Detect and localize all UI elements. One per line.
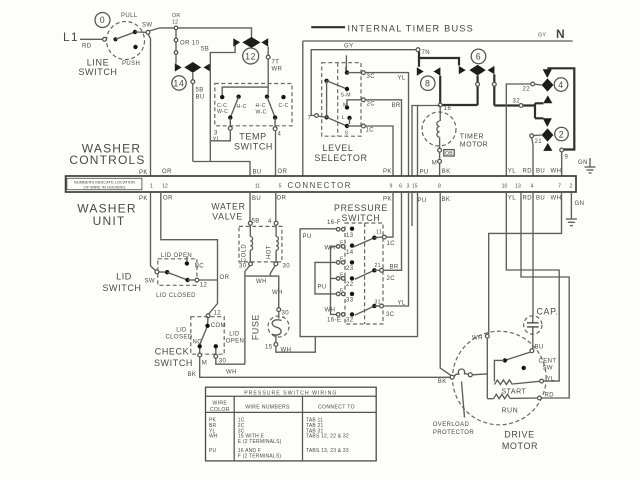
svg-text:E: E bbox=[340, 241, 344, 247]
svg-text:10: 10 bbox=[502, 184, 508, 190]
svg-text:H-C: H-C bbox=[256, 103, 266, 109]
wire plug6 right to 32 line bbox=[492, 74, 496, 105]
svg-text:4: 4 bbox=[278, 132, 282, 138]
svg-text:12: 12 bbox=[162, 184, 168, 190]
svg-text:M: M bbox=[202, 361, 207, 367]
svg-text:RD: RD bbox=[523, 196, 533, 202]
svg-text:5B: 5B bbox=[196, 88, 204, 94]
svg-text:PU: PU bbox=[420, 170, 429, 176]
svg-text:HOT: HOT bbox=[267, 245, 273, 259]
svg-text:COLD: COLD bbox=[242, 244, 248, 263]
wire L1 lead bbox=[80, 38, 103, 40]
wire BK below bar to overload bbox=[440, 192, 452, 376]
svg-text:F: F bbox=[340, 257, 343, 263]
overload protector bbox=[433, 369, 488, 436]
pressure switch terminals row 23 bbox=[336, 257, 354, 273]
svg-text:BU: BU bbox=[535, 345, 544, 351]
svg-text:12: 12 bbox=[245, 52, 256, 62]
svg-text:DRIVE: DRIVE bbox=[504, 430, 535, 440]
pressure switch terminals row 33 bbox=[336, 288, 354, 304]
svg-text:WIRE: WIRE bbox=[212, 401, 227, 407]
wire BU below bar to water valve bbox=[249, 192, 251, 221]
wire 11 stub below bar bbox=[411, 192, 413, 226]
svg-text:14: 14 bbox=[173, 78, 184, 88]
wire BU riser to 21 bbox=[532, 138, 533, 176]
fuse bbox=[251, 308, 292, 354]
svg-text:S: S bbox=[345, 131, 349, 137]
svg-text:N: N bbox=[556, 27, 565, 41]
svg-text:LID: LID bbox=[229, 332, 240, 338]
svg-text:FUSE: FUSE bbox=[251, 314, 261, 340]
svg-text:12: 12 bbox=[172, 20, 178, 26]
node YL motor bbox=[540, 377, 555, 384]
svg-text:CONNECTOR: CONNECTOR bbox=[288, 181, 353, 190]
svg-text:21: 21 bbox=[375, 263, 381, 269]
wire RD below bar to motor bbox=[521, 192, 569, 398]
wire check 30 to water valve (WH) bbox=[216, 358, 245, 375]
capacitor CAP bbox=[524, 307, 559, 353]
svg-text:BK: BK bbox=[188, 372, 197, 378]
svg-text:16-E: 16-E bbox=[327, 318, 341, 324]
svg-text:BU: BU bbox=[253, 170, 262, 176]
svg-text:14: 14 bbox=[346, 250, 354, 256]
svg-text:YL: YL bbox=[398, 301, 406, 307]
pressure switch terminals row 32 bbox=[325, 308, 355, 324]
start winding bbox=[494, 360, 539, 395]
svg-text:F (2 TERMINALS): F (2 TERMINALS) bbox=[238, 453, 282, 459]
svg-text:SWITCH: SWITCH bbox=[102, 283, 141, 293]
pressure switch terminals row 22 bbox=[336, 273, 354, 289]
svg-text:SW: SW bbox=[145, 279, 155, 285]
connector plug 14 bbox=[172, 62, 211, 90]
svg-text:12: 12 bbox=[200, 283, 208, 289]
wire 15 WH staple bbox=[412, 106, 418, 177]
svg-text:L: L bbox=[345, 67, 348, 73]
svg-text:SW: SW bbox=[142, 23, 152, 29]
svg-text:CLOSED: CLOSED bbox=[165, 335, 192, 341]
svg-text:31: 31 bbox=[375, 300, 381, 306]
svg-text:2: 2 bbox=[570, 184, 573, 190]
labels above connector left bbox=[139, 169, 288, 176]
svg-text:RD: RD bbox=[545, 393, 555, 399]
wire OR below bar to check switch bbox=[161, 192, 218, 314]
svg-text:RD: RD bbox=[523, 169, 533, 175]
svg-text:GN: GN bbox=[578, 160, 588, 166]
svg-text:22: 22 bbox=[523, 87, 531, 93]
buss bracket at 535 bbox=[535, 103, 543, 118]
svg-text:7T: 7T bbox=[272, 60, 280, 66]
wire 1C riser to bar bbox=[386, 192, 393, 237]
wire temp 3 to BU rail bbox=[210, 130, 230, 141]
svg-text:8: 8 bbox=[425, 79, 431, 89]
svg-text:VALVE: VALVE bbox=[212, 212, 243, 222]
svg-text:PU: PU bbox=[303, 234, 312, 240]
svg-text:WH: WH bbox=[256, 279, 267, 285]
labels below connector left bbox=[139, 196, 287, 203]
internal timer buss legend bbox=[311, 24, 474, 34]
svg-text:GN: GN bbox=[575, 201, 585, 207]
svg-text:PK: PK bbox=[139, 196, 148, 202]
svg-text:M: M bbox=[432, 161, 437, 167]
svg-text:11: 11 bbox=[255, 184, 260, 190]
svg-text:1: 1 bbox=[150, 184, 153, 190]
svg-text:TIMER: TIMER bbox=[460, 133, 484, 140]
node 7 (level selector) bbox=[308, 114, 327, 122]
svg-text:YL: YL bbox=[213, 137, 221, 143]
svg-text:15: 15 bbox=[265, 345, 273, 351]
svg-text:9: 9 bbox=[390, 184, 393, 190]
temp switch bbox=[213, 84, 293, 152]
svg-text:BR: BR bbox=[392, 103, 401, 109]
node 2C bbox=[362, 98, 376, 108]
labels above connector right bbox=[383, 169, 561, 176]
svg-text:OB: OB bbox=[445, 151, 453, 157]
svg-text:F: F bbox=[340, 288, 343, 294]
wire BU below bar to capacitor bbox=[532, 192, 534, 316]
connector plug 12 bbox=[233, 37, 268, 64]
svg-text:WH: WH bbox=[472, 336, 483, 342]
svg-text:2C: 2C bbox=[387, 276, 396, 282]
svg-text:PU: PU bbox=[418, 198, 427, 204]
svg-text:LID CLOSED: LID CLOSED bbox=[156, 293, 196, 299]
svg-text:YL: YL bbox=[508, 169, 516, 175]
svg-text:CONNECT TO: CONNECT TO bbox=[318, 405, 355, 411]
svg-text:23: 23 bbox=[346, 266, 354, 272]
wire 32 bbox=[494, 99, 535, 108]
level selector bbox=[314, 55, 367, 163]
svg-text:RUN: RUN bbox=[502, 408, 519, 415]
svg-text:GY: GY bbox=[538, 33, 546, 39]
pressure switch PU rail (left/bottom) bbox=[300, 192, 417, 337]
pressure contact 2C bbox=[355, 263, 395, 282]
svg-text:YL: YL bbox=[398, 76, 406, 82]
svg-text:WH: WH bbox=[551, 169, 562, 175]
svg-text:PULL: PULL bbox=[121, 13, 138, 19]
svg-text:BK: BK bbox=[442, 197, 451, 203]
wire 2C riser to bar (BR) bbox=[383, 192, 401, 271]
line switch bbox=[78, 13, 152, 78]
svg-text:OVERLOAD: OVERLOAD bbox=[433, 422, 470, 428]
svg-text:3C: 3C bbox=[367, 74, 376, 80]
svg-text:L1: L1 bbox=[63, 30, 79, 44]
svg-text:5: 5 bbox=[279, 184, 282, 190]
wire 7T WR drop to temp switch bbox=[266, 47, 282, 88]
svg-text:1C: 1C bbox=[366, 128, 375, 134]
svg-text:OR: OR bbox=[163, 196, 173, 202]
svg-text:W-C: W-C bbox=[256, 110, 267, 116]
wire plug14 right to BU rail bbox=[209, 141, 211, 162]
pressure switch terminals row 14 bbox=[325, 241, 355, 257]
wire plug6 diamond to node 16 bbox=[440, 76, 479, 106]
svg-text:CONTROLS: CONTROLS bbox=[69, 153, 145, 167]
wire water valve 30 node bbox=[245, 266, 283, 365]
wire WH jumper (E rows) bbox=[331, 246, 337, 314]
wire PU jumper (F rows) bbox=[315, 262, 337, 294]
svg-text:YL: YL bbox=[547, 377, 555, 383]
svg-text:OR 10: OR 10 bbox=[180, 41, 200, 47]
svg-text:3: 3 bbox=[214, 131, 218, 137]
buss right bracket bbox=[547, 68, 574, 149]
svg-text:SELECTOR: SELECTOR bbox=[314, 153, 367, 163]
svg-text:13: 13 bbox=[515, 184, 521, 190]
svg-text:TEMP: TEMP bbox=[239, 132, 266, 142]
svg-text:30: 30 bbox=[282, 311, 290, 317]
svg-text:16-F: 16-F bbox=[327, 220, 341, 226]
wire WH below bar to motor bbox=[489, 192, 562, 334]
svg-text:6: 6 bbox=[399, 184, 402, 190]
wire 3C riser to bar (YL) bbox=[383, 192, 408, 307]
node OR 12 bbox=[172, 13, 180, 30]
svg-text:30: 30 bbox=[239, 264, 247, 270]
pressure contact 3C bbox=[355, 300, 395, 319]
svg-text:RD: RD bbox=[82, 44, 92, 50]
washer controls label bbox=[69, 142, 145, 168]
svg-text:BU: BU bbox=[536, 169, 545, 175]
svg-text:BK: BK bbox=[442, 169, 451, 175]
svg-text:MOTOR: MOTOR bbox=[502, 441, 538, 451]
centrifugal switch bbox=[503, 352, 557, 371]
wire N (timer box top) bbox=[303, 40, 573, 42]
connector 4 (triangles and diamond) bbox=[542, 69, 568, 103]
svg-text:BU: BU bbox=[252, 196, 261, 202]
wire OR below bar to water valve bbox=[275, 192, 277, 221]
svg-text:2C: 2C bbox=[367, 102, 376, 108]
svg-text:OR: OR bbox=[278, 169, 288, 175]
svg-text:WH: WH bbox=[551, 196, 562, 202]
svg-text:INTERNAL TIMER BUSS: INTERNAL TIMER BUSS bbox=[348, 24, 474, 34]
wire YL riser to 22 bbox=[506, 84, 531, 176]
svg-text:OR: OR bbox=[162, 169, 172, 175]
svg-text:22: 22 bbox=[346, 282, 354, 288]
wire BR riser (2C) bbox=[365, 100, 401, 176]
svg-text:6: 6 bbox=[476, 52, 482, 62]
connector bar bbox=[66, 176, 576, 192]
svg-text:8: 8 bbox=[438, 184, 441, 190]
svg-text:32: 32 bbox=[346, 318, 354, 324]
timer box left edge bbox=[302, 41, 304, 176]
check switch bbox=[154, 311, 244, 369]
svg-text:UNIT: UNIT bbox=[93, 214, 126, 228]
svg-text:WH: WH bbox=[226, 370, 237, 376]
svg-text:3: 3 bbox=[407, 184, 410, 190]
wire YL riser (3C) bbox=[365, 73, 408, 176]
svg-text:7: 7 bbox=[558, 184, 561, 190]
svg-text:START: START bbox=[502, 389, 527, 396]
svg-text:2: 2 bbox=[559, 129, 565, 139]
node 1C bbox=[362, 124, 375, 133]
svg-text:0: 0 bbox=[100, 15, 106, 25]
svg-text:OF WIRE IN HOUSING: OF WIRE IN HOUSING bbox=[84, 185, 126, 190]
svg-text:OR: OR bbox=[220, 275, 230, 281]
pressure switch bbox=[334, 203, 388, 324]
node L1 bbox=[63, 30, 92, 50]
node 21 bbox=[530, 134, 542, 145]
svg-text:CENT: CENT bbox=[539, 359, 557, 365]
svg-text:NC: NC bbox=[195, 264, 205, 270]
wire 5B BU drop bbox=[191, 73, 205, 162]
svg-text:30: 30 bbox=[283, 264, 291, 270]
svg-text:32: 32 bbox=[513, 99, 521, 105]
svg-text:PRESSURE SWITCH WIRING: PRESSURE SWITCH WIRING bbox=[244, 390, 337, 396]
node 22 bbox=[523, 82, 542, 92]
drive motor bbox=[453, 331, 547, 451]
svg-text:1C: 1C bbox=[387, 241, 396, 247]
svg-text:4: 4 bbox=[558, 80, 564, 90]
water valve bbox=[211, 202, 290, 270]
svg-text:COLOR: COLOR bbox=[210, 407, 230, 413]
svg-text:PROTECTOR: PROTECTOR bbox=[433, 430, 474, 436]
wire 5B (plug14 to plug12) bbox=[201, 43, 235, 68]
svg-text:COM: COM bbox=[211, 323, 226, 329]
svg-text:PK: PK bbox=[139, 170, 148, 176]
svg-text:WH: WH bbox=[209, 434, 218, 440]
timer motor bbox=[422, 107, 488, 176]
lid switch bbox=[102, 253, 207, 299]
node 7N bbox=[416, 48, 430, 56]
svg-text:LEVEL: LEVEL bbox=[322, 143, 353, 153]
svg-text:L: L bbox=[342, 115, 345, 121]
svg-text:OPEN: OPEN bbox=[226, 339, 245, 345]
svg-text:S-M: S-M bbox=[341, 93, 351, 99]
wire OR drop bbox=[174, 30, 199, 64]
connector plug 8 bbox=[417, 67, 441, 90]
svg-text:SWITCH: SWITCH bbox=[154, 358, 193, 368]
buss 7N rail bbox=[419, 52, 459, 66]
wire BK check M to overload bbox=[188, 357, 451, 378]
svg-text:WIRE NUMBERS: WIRE NUMBERS bbox=[245, 405, 290, 411]
svg-text:PU: PU bbox=[209, 448, 217, 454]
ground GN top right bbox=[578, 158, 596, 173]
labels below connector right bbox=[383, 196, 584, 208]
svg-text:BK: BK bbox=[438, 379, 447, 385]
wire GY to 7N bbox=[311, 44, 416, 116]
svg-text:H-C: H-C bbox=[237, 104, 247, 110]
svg-text:BR: BR bbox=[390, 265, 399, 271]
svg-text:SWITCH: SWITCH bbox=[78, 67, 117, 77]
svg-text:YL: YL bbox=[508, 196, 516, 202]
svg-text:4: 4 bbox=[268, 219, 272, 225]
svg-text:33: 33 bbox=[346, 298, 354, 304]
svg-text:OR: OR bbox=[172, 13, 180, 19]
svg-text:4: 4 bbox=[531, 184, 534, 190]
run winding bbox=[487, 394, 537, 414]
wire YL below bar to motor bbox=[506, 192, 559, 381]
svg-text:GY: GY bbox=[344, 44, 353, 50]
svg-text:9: 9 bbox=[565, 155, 569, 161]
svg-text:WATER: WATER bbox=[211, 202, 245, 212]
svg-text:CAP.: CAP. bbox=[537, 307, 559, 317]
wire BU horizontal to connector bbox=[193, 162, 250, 177]
svg-text:LINE: LINE bbox=[87, 58, 109, 68]
svg-text:11: 11 bbox=[376, 230, 382, 236]
node 9 bbox=[560, 148, 569, 176]
wire SW to plug 12 (top rail) bbox=[150, 28, 252, 37]
svg-text:12: 12 bbox=[214, 311, 222, 317]
wire lid 12 to OR riser bbox=[199, 275, 230, 281]
pressure contact 1C bbox=[353, 230, 395, 248]
wire PK riser (1C) bbox=[365, 126, 393, 176]
node 16 bbox=[438, 103, 451, 112]
svg-text:E: E bbox=[340, 273, 344, 279]
svg-text:MOTOR: MOTOR bbox=[460, 141, 488, 148]
svg-text:SWITCH: SWITCH bbox=[342, 213, 381, 223]
svg-text:E (2 TERMINALS): E (2 TERMINALS) bbox=[238, 439, 282, 445]
svg-text:BU: BU bbox=[536, 196, 545, 202]
svg-text:C-C: C-C bbox=[279, 103, 289, 109]
connector plug 6 bbox=[459, 49, 495, 75]
svg-text:SWITCH: SWITCH bbox=[234, 142, 273, 152]
svg-text:CHECK: CHECK bbox=[155, 347, 190, 357]
svg-text:7N: 7N bbox=[422, 50, 430, 56]
svg-text:LID: LID bbox=[116, 272, 132, 282]
svg-text:13: 13 bbox=[346, 233, 354, 239]
svg-text:SW: SW bbox=[543, 366, 553, 372]
svg-text:LID: LID bbox=[176, 328, 187, 334]
svg-text:TABS 12, 22 & 32: TABS 12, 22 & 32 bbox=[306, 434, 349, 440]
svg-text:PRESSURE: PRESSURE bbox=[334, 203, 388, 213]
svg-text:3C: 3C bbox=[386, 312, 395, 318]
svg-text:NC: NC bbox=[193, 340, 203, 346]
svg-text:WH: WH bbox=[272, 290, 283, 296]
svg-text:21: 21 bbox=[535, 139, 543, 145]
wire plug8 to node 16 bbox=[439, 76, 441, 105]
svg-text:PK: PK bbox=[383, 197, 392, 203]
svg-text:W-C: W-C bbox=[217, 109, 228, 115]
connector 2 (triangles and diamond) bbox=[542, 118, 569, 151]
wire fuse bottom to pressure rail bbox=[276, 337, 315, 353]
svg-text:7: 7 bbox=[308, 116, 312, 122]
svg-text:PUSH: PUSH bbox=[122, 61, 140, 67]
svg-text:BU: BU bbox=[196, 95, 205, 101]
svg-text:M: M bbox=[343, 103, 348, 109]
node RD motor bbox=[538, 393, 555, 400]
wire PK from line switch to connector bbox=[148, 34, 151, 176]
pressure switch terminals row 13 bbox=[327, 220, 354, 239]
wire PK below bar to lid switch bbox=[151, 192, 157, 271]
svg-text:WR: WR bbox=[272, 67, 283, 73]
svg-text:PK: PK bbox=[383, 169, 392, 175]
node N and GY label bbox=[538, 27, 565, 41]
svg-text:15: 15 bbox=[412, 184, 418, 190]
svg-text:OR: OR bbox=[277, 196, 287, 202]
wire temp 4 to connector (OR) bbox=[275, 131, 277, 176]
svg-text:16: 16 bbox=[444, 106, 452, 112]
svg-text:5B: 5B bbox=[201, 47, 209, 53]
pressure switch wiring table bbox=[206, 387, 377, 461]
washer unit label bbox=[77, 202, 136, 229]
svg-text:TABS 13, 23 & 33: TABS 13, 23 & 33 bbox=[306, 448, 349, 454]
svg-text:PU: PU bbox=[318, 285, 327, 291]
ground GN below bar bbox=[566, 192, 577, 226]
node 3C bbox=[362, 71, 376, 80]
